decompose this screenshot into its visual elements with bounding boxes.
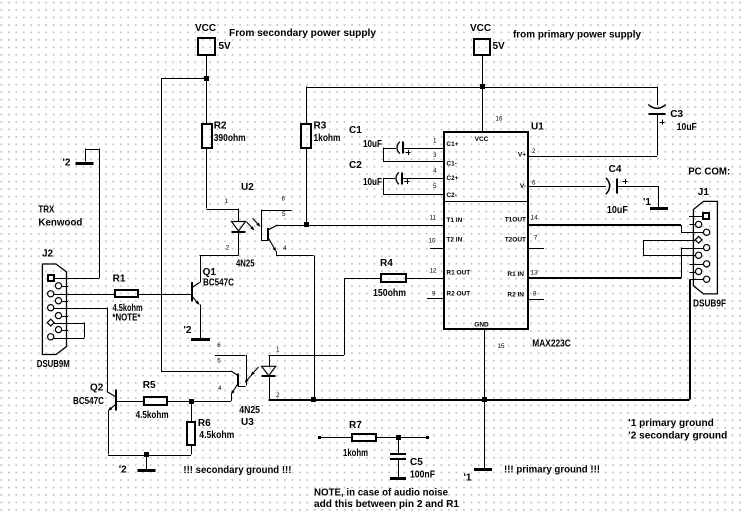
J2 pin9 circle	[48, 334, 54, 340]
svg-text:*NOTE*: *NOTE*	[112, 313, 140, 324]
Q1 base wire from R1	[137, 294, 192, 296]
svg-text:10uF: 10uF	[607, 205, 628, 216]
svg-text:15: 15	[498, 343, 506, 350]
svg-text:TRX: TRX	[38, 205, 54, 216]
junction ground stub	[144, 452, 149, 457]
U2 LED cathode wire	[238, 232, 240, 256]
svg-text:10: 10	[429, 238, 437, 245]
wire J2 pin3 to R1	[54, 294, 115, 296]
J2 pin3 circle	[48, 291, 54, 297]
wire rail to J1 ground pin	[484, 399, 690, 401]
svg-text:R1: R1	[113, 274, 126, 285]
U3 collector diag	[231, 371, 238, 376]
J2 pin7 diamond	[47, 319, 54, 326]
svg-text:6: 6	[282, 196, 286, 203]
svg-text:8: 8	[533, 291, 537, 298]
svg-text:J1: J1	[698, 187, 710, 198]
svg-text:VCC: VCC	[475, 136, 489, 143]
svg-text:5: 5	[217, 358, 221, 365]
U2 emitter	[268, 238, 274, 248]
J1 pin9 tick	[690, 272, 696, 274]
svg-text:'2 secondary ground: '2 secondary ground	[628, 431, 727, 442]
svg-text:2: 2	[276, 392, 280, 399]
svg-text:BC547C: BC547C	[203, 278, 234, 289]
ground '2 top left	[76, 162, 94, 165]
svg-text:4N25: 4N25	[236, 259, 255, 270]
svg-text:1kohm: 1kohm	[343, 448, 368, 459]
svg-text:T2 IN: T2 IN	[446, 237, 462, 244]
svg-text:U1: U1	[531, 122, 544, 133]
J2 pin6 circle	[55, 313, 61, 319]
J1 pin4 circle	[704, 261, 710, 267]
svg-text:4: 4	[218, 385, 222, 392]
svg-text:DSUB9F: DSUB9F	[693, 299, 726, 310]
svg-text:14: 14	[531, 215, 539, 222]
junction C5	[396, 435, 401, 440]
U3 LED cathode wire	[269, 376, 271, 399]
wire R1IN from J1	[528, 277, 681, 279]
U3 base bar	[237, 374, 239, 387]
Q1 emitter	[192, 297, 196, 302]
svg-text:3: 3	[433, 152, 437, 159]
J1 pin4 tick	[690, 264, 704, 266]
svg-text:'1: '1	[464, 473, 472, 484]
svg-text:C3: C3	[670, 109, 683, 120]
ground '1 at C4	[650, 207, 668, 210]
U3 LED anode wire	[269, 355, 271, 366]
svg-text:2: 2	[532, 148, 536, 155]
J1 pin8 circle	[696, 252, 702, 258]
svg-text:5: 5	[433, 183, 437, 190]
U1 T2OUT stub	[528, 248, 544, 250]
svg-text:5V: 5V	[493, 41, 506, 52]
wire R4 to R1OUT	[406, 278, 444, 280]
svg-text:10uF: 10uF	[363, 139, 382, 150]
Q2 base bar	[115, 389, 117, 410]
svg-text:13: 13	[531, 270, 539, 277]
J2 pin1 square	[48, 275, 54, 281]
U3 emitter	[233, 384, 238, 391]
J1 pin5 tick	[690, 279, 704, 281]
svg-text:J2: J2	[42, 249, 54, 260]
wire J2 pin7-pin9 loop	[54, 323, 85, 325]
wire V- to C4	[528, 186, 606, 188]
U1 R2IN stub	[528, 299, 544, 301]
svg-text:R2 IN: R2 IN	[507, 291, 524, 298]
svg-text:C2+: C2+	[446, 175, 458, 182]
svg-text:150ohm: 150ohm	[373, 288, 406, 299]
wire U1 GND down	[484, 329, 486, 400]
wire VCC2 rail left	[161, 78, 207, 80]
wire VCC1 to U1 pin16	[482, 56, 484, 133]
junction VCC2 rail	[204, 76, 209, 81]
J1 pin1 square	[703, 213, 709, 219]
wire T1OUT to J1	[528, 224, 681, 226]
U2 pin 6 base stub	[261, 210, 292, 212]
svg-text:'2: '2	[119, 465, 127, 476]
svg-text:C1-: C1-	[446, 160, 456, 167]
wire VCC1 rail	[306, 87, 657, 89]
Q1 base bar	[191, 282, 193, 302]
resistor R7 1kohm	[318, 436, 321, 439]
svg-text:10uF: 10uF	[363, 177, 382, 188]
svg-text:R1 IN: R1 IN	[507, 271, 524, 278]
wire R5 to U3 emitter	[168, 401, 231, 403]
svg-text:GND: GND	[474, 322, 489, 329]
wire R6	[191, 401, 193, 422]
J1 pin6 tick	[689, 224, 695, 226]
svg-text:from primary power supply: from primary power supply	[513, 30, 641, 41]
U2 phototransistor base bar	[267, 228, 269, 240]
U3 light arrows	[254, 367, 259, 372]
J2 pin2 circle	[55, 283, 61, 289]
U1 internal divider	[444, 201, 528, 203]
svg-text:Q2: Q2	[90, 383, 104, 394]
Q2 base wire	[116, 401, 145, 403]
svg-text:PC COM:: PC COM:	[688, 167, 730, 178]
wire R2 to U2 LED anode	[206, 148, 208, 209]
svg-text:C5: C5	[410, 457, 423, 468]
svg-text:C2: C2	[349, 160, 362, 171]
resistor R4 150ohm	[344, 278, 346, 355]
resistor R2 390ohm	[202, 124, 212, 148]
ic U1 MAX223C body	[444, 132, 528, 329]
wire secondary VCC vertical to U3 collector	[161, 78, 163, 371]
resistor R5 4.5kohm	[144, 397, 167, 405]
wire J2 pin1 to secondary ground	[54, 278, 100, 280]
svg-text:MAX223C: MAX223C	[532, 339, 571, 350]
J2 pin8 circle	[55, 327, 61, 333]
resistor R1 4.5kohm	[115, 290, 138, 297]
ground '1 primary	[474, 468, 492, 471]
junction GND rail	[482, 397, 487, 402]
J1 pin2 circle	[704, 229, 710, 235]
svg-text:4: 4	[433, 168, 437, 175]
wire VCC2 down to R2	[206, 55, 208, 124]
wire U2 emitter to node	[276, 255, 313, 257]
svg-text:Q1: Q1	[203, 267, 217, 278]
ground '2 bottom	[138, 469, 156, 472]
svg-text:R4: R4	[380, 258, 393, 269]
J1 pin1 tick	[689, 216, 703, 218]
svg-text:R1 OUT: R1 OUT	[446, 270, 470, 277]
svg-text:'1: '1	[643, 197, 651, 208]
J1 pin6 circle	[696, 221, 702, 227]
svg-text:12: 12	[430, 268, 438, 275]
svg-text:From secondary power supply: From secondary power supply	[229, 28, 376, 39]
svg-text:T2OUT: T2OUT	[505, 237, 526, 244]
svg-text:Kenwood: Kenwood	[38, 218, 82, 229]
svg-text:10uF: 10uF	[677, 122, 697, 133]
Q1 collector wire	[200, 255, 202, 282]
J1 pin9 circle	[696, 268, 702, 274]
wire primary ground rail	[269, 399, 484, 401]
svg-text:R5: R5	[143, 380, 156, 391]
svg-text:'2: '2	[184, 325, 192, 336]
svg-text:4.5kohm: 4.5kohm	[199, 430, 234, 441]
ground '2 at Q1	[191, 338, 210, 341]
svg-text:5V: 5V	[219, 41, 232, 52]
J2 pin5 circle	[48, 305, 54, 311]
wire emitter net vertical	[314, 255, 316, 399]
svg-text:100nF: 100nF	[410, 470, 435, 481]
svg-text:7: 7	[534, 235, 538, 242]
svg-text:16: 16	[496, 116, 504, 123]
svg-text:V+: V+	[518, 152, 526, 159]
svg-text:2: 2	[226, 245, 230, 252]
svg-text:6: 6	[217, 342, 221, 349]
svg-text:'1 primary ground: '1 primary ground	[628, 418, 714, 429]
power symbol VCC secondary 5V	[198, 38, 215, 55]
svg-text:U2: U2	[241, 182, 254, 193]
resistor R6 4.5kohm	[187, 422, 195, 445]
svg-text:BC547C: BC547C	[73, 396, 104, 407]
svg-text:390ohm: 390ohm	[214, 133, 246, 144]
svg-text:9: 9	[432, 291, 436, 298]
junction R6 top	[189, 399, 194, 404]
Q2 collector diag	[107, 392, 116, 397]
wire J2 pin5 down to Q2	[54, 308, 107, 310]
svg-text:R6: R6	[198, 418, 211, 429]
svg-text:1: 1	[433, 137, 437, 144]
J2 pin4 circle	[55, 298, 61, 304]
wire R3 bottom	[306, 148, 308, 225]
svg-text:C4: C4	[609, 164, 622, 175]
svg-text:VCC: VCC	[470, 23, 491, 34]
wire secondary ground rail	[108, 455, 191, 457]
svg-text:R3: R3	[314, 121, 327, 132]
capacitor C5 100nF	[398, 437, 400, 454]
Q2 emitter	[111, 404, 116, 408]
svg-text:add this between pin 2 and R1: add this between pin 2 and R1	[314, 499, 459, 510]
U2 light arrows	[247, 222, 252, 227]
U2 collector	[268, 225, 277, 230]
svg-text:T1 IN: T1 IN	[446, 217, 462, 224]
svg-text:4N25: 4N25	[239, 405, 260, 416]
svg-text:R7: R7	[349, 420, 362, 431]
junction emitter-net rail	[311, 397, 316, 402]
junction R3/U2 collector	[304, 222, 309, 227]
svg-text:C1: C1	[349, 125, 362, 136]
J2 pin4 tick	[62, 301, 68, 303]
power symbol VCC primary 5V	[474, 39, 490, 55]
U1 R2OUT stub	[427, 298, 444, 300]
svg-text:U3: U3	[241, 417, 254, 428]
wire J1 pin7-pin8 loop	[643, 240, 695, 242]
svg-text:!!! primary ground !!!: !!! primary ground !!!	[504, 465, 600, 476]
svg-text:VCC: VCC	[195, 23, 216, 34]
svg-text:5: 5	[282, 211, 286, 218]
svg-text:R2: R2	[214, 121, 227, 132]
J1 pin3 circle	[704, 245, 710, 251]
svg-text:!!! secondary ground !!!: !!! secondary ground !!!	[183, 465, 291, 476]
svg-text:NOTE, in case of audio noise: NOTE, in case of audio noise	[314, 488, 448, 499]
svg-text:1kohm: 1kohm	[314, 133, 341, 144]
svg-text:1: 1	[225, 198, 229, 205]
wire U2 collector to T1IN	[278, 225, 444, 227]
J1 pin5 circle	[704, 276, 710, 282]
U1 T2IN stub	[430, 248, 444, 250]
svg-text:C1+: C1+	[446, 141, 458, 148]
J2 pin2 tick	[62, 286, 68, 288]
svg-text:1: 1	[276, 347, 280, 354]
J2 pin8 tick	[62, 330, 68, 332]
J2 pin6 tick	[62, 316, 68, 318]
svg-text:4: 4	[283, 245, 287, 252]
svg-text:V-: V-	[520, 183, 526, 190]
svg-text:R2 OUT: R2 OUT	[446, 290, 470, 297]
svg-text:11: 11	[430, 215, 437, 222]
svg-text:C2-: C2-	[446, 192, 456, 199]
U2 LED	[232, 222, 246, 232]
svg-text:'2: '2	[63, 158, 71, 169]
wire to U3 collector	[161, 371, 231, 373]
svg-text:4.5kohm: 4.5kohm	[136, 410, 169, 421]
J1 pin7 diamond	[695, 236, 702, 243]
svg-text:DSUB9M: DSUB9M	[37, 359, 70, 370]
U3 LED	[262, 366, 276, 376]
svg-text:T1OUT: T1OUT	[505, 216, 526, 223]
resistor R3 1kohm	[306, 87, 308, 124]
U3 pin6 stub	[215, 355, 246, 357]
wire V+ to C3	[528, 156, 657, 158]
junction VCC1 rail	[480, 84, 485, 89]
svg-text:6: 6	[532, 180, 536, 187]
